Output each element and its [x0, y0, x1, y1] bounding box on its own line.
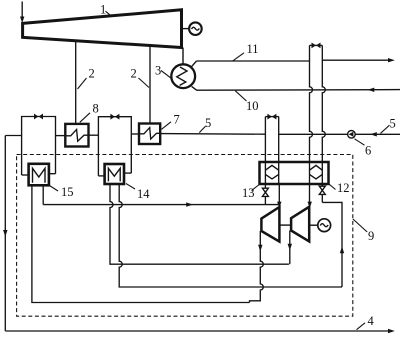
- wire turbine 1 exhaust to condenser: [182, 48, 184, 65]
- drain wire valve 12 to lower line: [322, 202, 344, 287]
- wire loop15 right leg to heater 15: [49, 173, 56, 175]
- steam feed wire to turbine T2: [308, 184, 312, 208]
- wire heater 15 left outlet to bottom header: [32, 185, 250, 302]
- svg-text:12: 12: [337, 181, 350, 195]
- svg-text:13: 13: [242, 186, 255, 200]
- loop pipe with valve over heater 15: [22, 117, 56, 176]
- svg-text:1: 1: [100, 3, 106, 17]
- loop pipe with valve over heater 14: [98, 117, 131, 176]
- left return wire of line 5 down the left side: [3, 136, 7, 332]
- drain valve 12: [319, 184, 325, 202]
- label 2 leader: [78, 78, 87, 89]
- exhaust wire from T2: [288, 231, 292, 265]
- svg-text:6: 6: [365, 144, 371, 158]
- valve on steam pipe 13: [267, 114, 276, 120]
- svg-text:10: 10: [246, 99, 259, 113]
- svg-text:4: 4: [368, 314, 375, 328]
- shaft T2 to generator G2: [309, 224, 318, 226]
- steam inlet arrow into turbine 1: [20, 2, 24, 24]
- steam pipe with valve (to heater 13): [265, 117, 278, 162]
- steam pipe with valve (to heater 12): [310, 45, 326, 162]
- wire 2 (second extraction) turbine to heater 7: [149, 46, 151, 124]
- svg-text:8: 8: [93, 101, 99, 115]
- pump 6: [348, 131, 356, 139]
- condenser 3: [171, 64, 195, 88]
- label 12 leader: [329, 184, 336, 190]
- heat exchanger 8: [65, 124, 88, 147]
- wire 2 (first extraction) turbine to heater 8: [75, 41, 77, 124]
- valve on loop 15: [34, 114, 43, 120]
- dashed boundary 9: [17, 155, 353, 317]
- generator G2: [318, 219, 331, 232]
- heater 13 coil: [265, 162, 278, 184]
- condensate line 5 segments: [5, 132, 400, 136]
- svg-text:5: 5: [205, 116, 211, 130]
- generator G1: [189, 22, 202, 35]
- mixing heater 15: [29, 164, 49, 186]
- label 2 leader: [139, 78, 150, 88]
- label 4 leader: [357, 323, 366, 330]
- exhaust wire from T1: [250, 231, 264, 303]
- drain valve 13: [262, 184, 268, 205]
- label 7 leader: [162, 122, 172, 130]
- label 9 leader: [353, 219, 367, 232]
- wire heater 14 right outlet to lower header: [119, 183, 342, 287]
- turbine 1 (main steam turbine): [23, 10, 182, 48]
- wire loop15 left leg to heater 15: [22, 174, 29, 176]
- steam feed wire to turbine T1: [277, 184, 281, 208]
- label 5 (right) leader: [381, 125, 390, 133]
- label 1 leader: [106, 11, 112, 16]
- valve on loop 14: [110, 114, 119, 120]
- heat exchanger 7: [139, 124, 160, 145]
- svg-text:15: 15: [61, 185, 74, 199]
- wire line 10 from condenser: [192, 86, 400, 92]
- turbine T1 (drive turbine hp): [261, 207, 279, 242]
- feed line 4 along bottom: [5, 329, 395, 333]
- label 6 leader: [355, 139, 365, 145]
- wire line 11 from condenser: [192, 58, 395, 67]
- label 14 leader: [126, 184, 135, 190]
- shaft T1-T2: [279, 224, 291, 226]
- svg-text:3: 3: [155, 64, 161, 78]
- label 13 leader: [252, 185, 260, 191]
- label 10 leader: [235, 91, 246, 101]
- mixing heater 14: [105, 164, 124, 184]
- svg-text:2: 2: [89, 67, 95, 81]
- svg-text:14: 14: [137, 187, 150, 201]
- turbine T2 (drive turbine lp): [291, 207, 309, 242]
- svg-text:7: 7: [174, 113, 180, 127]
- svg-text:9: 9: [368, 229, 374, 243]
- label 15 leader: [50, 186, 59, 192]
- heater block 12/13: [260, 162, 329, 184]
- valve on steam pipe 12: [312, 43, 321, 49]
- svg-text:11: 11: [247, 42, 259, 56]
- shaft turbine 1 to generator: [182, 28, 190, 30]
- wire heater 14 left outlet to exhaust header: [110, 183, 289, 264]
- drains header wire from heater 15: [43, 185, 279, 207]
- label 5 (mid) leader: [199, 126, 205, 132]
- svg-text:2: 2: [131, 67, 137, 81]
- heater 12 coil: [310, 162, 323, 184]
- wire loop14 right leg to heater 14: [124, 172, 131, 174]
- label 8 leader: [80, 113, 90, 123]
- label 3 leader: [161, 71, 171, 79]
- svg-text:5: 5: [390, 117, 396, 131]
- wire loop14 left leg to heater 14: [98, 175, 104, 177]
- label 11 leader: [232, 53, 244, 61]
